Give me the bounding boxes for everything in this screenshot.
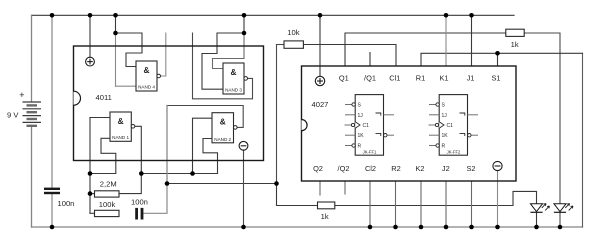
wire NAND2 input A riser [193,118,213,173]
junction NAND1 input net left [88,171,93,176]
wire NAND1 input B jog [90,138,116,173]
svg-text:JK-FF1: JK-FF1 [363,149,377,154]
svg-text:10k: 10k [287,28,299,37]
wire J1 drop from +V rail [471,15,473,66]
LED D1 [530,204,549,213]
svg-text:1J: 1J [358,113,364,119]
junction NAND2 output net [165,181,170,186]
wire R2 drop to 0V [395,181,397,227]
wire 4027 minus terminal drop to 0V [497,171,499,227]
wire 4011 plus terminal drop [89,15,91,57]
junction +V rail to 4011 plus [88,13,93,18]
svg-text:Cl2: Cl2 [365,164,376,173]
wire NAND3 output loop stub [193,33,253,99]
svg-text:Q1: Q1 [339,73,349,82]
resistor R 2.2M [95,179,120,197]
flip-flop JK-FF2 [429,95,479,156]
wire NAND4 output stub [160,33,165,76]
svg-text:S2: S2 [466,164,475,173]
svg-text:J2: J2 [442,164,450,173]
resistor R 10k [284,28,303,48]
svg-text:NAND 1: NAND 1 [112,135,129,140]
wire J2 drop to 0V [445,181,447,227]
IC 4011 notch [74,91,81,105]
wire NAND1 input A horizontal [90,117,110,119]
svg-text:&: & [118,116,124,126]
wire 100k left lead [90,212,95,214]
svg-text:Q2: Q2 [313,164,323,173]
IC 4027 notch [302,120,308,131]
capacitor C2 100n [131,198,148,220]
flip-flop JK-FF1 [345,95,395,156]
wire 4027 plus terminal drop [319,15,321,76]
IC 4027 plus terminal [315,76,324,85]
wire capacitor C1 top lead from +V rail [51,15,53,188]
junction 0V rail 4011 minus [241,225,246,230]
wire right side drop from R1/S1 net to 0V rail [582,53,584,227]
wire NAND2 input B riser [203,139,218,174]
wire NAND3 input A jog [213,33,245,69]
svg-text:&: & [231,67,237,77]
junction +V rail to NAND3 inputs [242,13,247,18]
junction +V rail to J1 [469,13,474,18]
resistor R 1k bottom [318,202,335,221]
wire 4011 minus terminal drop to 0V [243,150,245,227]
wire 1k top right lead to LED2 [524,33,560,203]
svg-text:&: & [220,117,226,127]
svg-text:NAND 2: NAND 2 [214,137,231,142]
wire Q2 stub [319,181,321,195]
wire 10k left lead horizontal [277,44,285,46]
svg-text:/Q2: /Q2 [338,164,350,173]
svg-text:Cl1: Cl1 [389,73,400,82]
wire top +V rail [32,14,515,16]
svg-text:100n: 100n [131,198,148,207]
junction +V rail to K1 [444,13,449,18]
svg-text:R: R [358,144,362,150]
wire 10k right lead to Cl1 [303,45,396,67]
wire 10k left lead drop [276,45,278,184]
junction 0V rail J2 [444,225,449,230]
junction 0V rail LED1 [534,225,539,230]
svg-text:J1: J1 [467,73,475,82]
gate NAND1 [110,112,135,141]
junction 0V rail K2 [419,225,424,230]
wire NAND1 output to 2.2M [119,126,141,193]
gate NAND2 [212,113,237,143]
IC 4027 bottom pin labels [313,164,475,173]
svg-text:1k: 1k [511,40,519,49]
wire NAND2 output riser to C2 net [166,106,168,184]
wire from net y183.5 down to 1k [277,184,318,206]
capacitor C1 100n [44,188,74,208]
junction +V rail to C1 [50,13,55,18]
IC 4011 minus terminal [239,141,248,150]
junction 0V rail R2 [393,225,398,230]
wire NAND4 input net riser from +V rail [115,15,117,33]
svg-text:1J: 1J [442,113,448,119]
wire R1 riser and net to right drop [421,53,583,66]
wire S1 riser [497,53,499,66]
wire oscillator output net y183.5 [167,183,277,185]
svg-text:+: + [19,90,24,100]
svg-text:4011: 4011 [96,93,112,102]
svg-text:K1: K1 [439,73,448,82]
LED D2 [554,204,573,213]
wire NAND4 input A jog [116,33,143,67]
junction 0V rail LED2 [558,225,563,230]
wire node riser from +V rail at x244 [243,15,245,33]
svg-text:1k: 1k [321,212,329,221]
wire S2 drop to 0V [471,181,473,227]
wire /Q1 stub [369,53,371,67]
IC 4011 box [74,46,264,161]
wire K2 drop to 0V [420,181,422,227]
svg-text:/Q1: /Q1 [364,73,376,82]
junction +V rail to 4027 plus [318,13,323,18]
svg-text:C1: C1 [363,123,370,129]
wire Q1 riser and net to 1k [345,33,506,66]
wire Cl2 drop to 0V [369,181,371,227]
svg-text:R1: R1 [416,73,425,82]
wire C2 right lead riser [143,184,167,214]
wire LED2 cathode to 0V rail [559,212,561,227]
wire /Q2 stub [344,181,346,194]
IC 4027 top pin labels [339,73,501,82]
svg-text:100n: 100n [58,199,75,208]
wire K1 drop from +V rail [445,15,447,66]
svg-text:JK-FF2: JK-FF2 [447,149,461,154]
svg-text:NAND 4: NAND 4 [138,85,155,90]
svg-text:R: R [442,144,446,150]
svg-text:K2: K2 [415,164,424,173]
junction NAND3 input net [242,31,247,36]
junction 0V rail 4027 minus [495,225,500,230]
wire battery negative lead down to 0V rail [31,126,33,227]
wire NAND3 input B jog [202,33,244,89]
junction 0V rail C1 [50,225,55,230]
battery B1 9V [7,90,41,126]
wire left rail from battery + to top rail [31,15,33,102]
wire NAND2 output loop [167,106,243,128]
svg-text:C1: C1 [447,123,454,129]
wire 1k bottom right lead to LED1 [335,191,537,205]
wire capacitor C1 bottom lead to 0V rail [51,194,53,227]
svg-text:1K: 1K [358,133,365,139]
IC 4011 plus terminal [86,57,95,66]
svg-text:2,2M: 2,2M [100,179,117,188]
junction NAND1 output net [139,171,144,176]
junction 0V rail Cl2 [368,225,373,230]
svg-text:100k: 100k [99,200,116,209]
wire NAND1 input vertical bus x90 to RC junction [89,118,91,214]
svg-text:S1: S1 [491,73,500,82]
junction 10k to 1k net [274,181,279,186]
gate NAND3 [223,63,248,94]
junction 2.2M left lead [88,191,93,196]
resistor R 100k [95,200,120,217]
junction 0V rail S2 [469,225,474,230]
svg-text:4027: 4027 [312,100,329,109]
wire NAND1 output branch to NAND2 inputs [141,173,217,175]
wire bottom 0V rail [32,226,583,228]
wire LED1 cathode to 0V rail [536,212,538,227]
IC 4027 box [302,66,517,181]
svg-text:1K: 1K [442,133,449,139]
svg-text:NAND 3: NAND 3 [225,88,242,93]
wire 2.2M left lead [90,193,95,195]
junction NAND2 input A tap [190,171,195,176]
wire NAND4 input B drop [115,33,117,86]
gate NAND4 [136,61,161,91]
junction NAND4 input net [113,31,118,36]
svg-text:9 V: 9 V [7,111,19,120]
svg-text:&: & [144,65,150,75]
wire NAND4 input B horizontal [116,85,137,87]
junction R1/S1 net [495,51,500,56]
junction +V rail to NAND4 inputs [113,13,118,18]
IC 4027 minus terminal [493,161,502,170]
svg-text:R2: R2 [391,164,400,173]
resistor R 1k top [506,29,524,49]
